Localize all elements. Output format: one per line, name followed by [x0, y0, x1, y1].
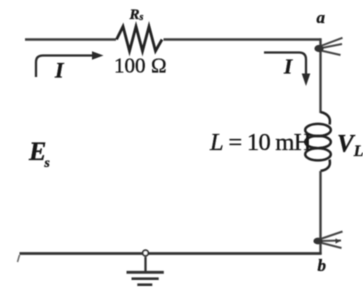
ground stem	[144, 257, 146, 272]
wire end tick bottom-left	[18, 255, 20, 262]
connection fan at node b	[318, 232, 343, 249]
svg-text:VL: VL	[337, 131, 363, 161]
wire right vertical upper	[319, 38, 321, 113]
svg-text:Es: Es	[28, 137, 50, 171]
wire right vertical lower	[319, 171, 321, 255]
ground bar 1	[127, 271, 164, 274]
current arrow I (left)	[36, 56, 94, 78]
inductor L coil	[305, 112, 331, 171]
svg-text:a: a	[317, 8, 326, 27]
svg-text:Rs: Rs	[129, 7, 144, 23]
svg-text:100 Ω: 100 Ω	[114, 54, 167, 78]
connection fan at node a	[318, 38, 343, 55]
resistor Rs	[117, 27, 163, 52]
svg-text:b: b	[318, 256, 327, 275]
ground bar 3	[137, 283, 152, 286]
svg-text:I: I	[283, 55, 293, 79]
ground node junction	[143, 250, 149, 256]
current arrow I (right, downward)	[264, 53, 306, 75]
wire top-left segment	[25, 38, 116, 40]
wire bottom	[20, 252, 322, 255]
wire top-right segment	[164, 38, 321, 40]
svg-text:I: I	[54, 58, 65, 83]
ground bar 2	[132, 277, 159, 280]
svg-text:L = 10 mH: L = 10 mH	[209, 129, 311, 156]
